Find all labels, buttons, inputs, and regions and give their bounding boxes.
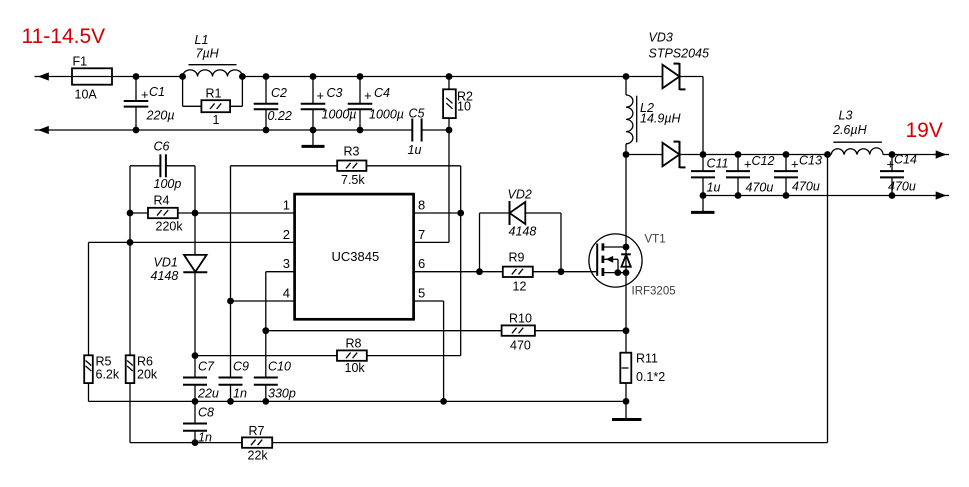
svg-text:+: +	[364, 88, 372, 103]
svg-text:C11: C11	[707, 157, 729, 171]
svg-text:VT1: VT1	[645, 234, 666, 246]
wire feedback row	[130, 442, 828, 444]
junction C9 bottom	[227, 398, 234, 405]
junction L2 top	[623, 73, 630, 80]
junction pin2	[127, 239, 134, 246]
svg-text:R11: R11	[636, 352, 658, 366]
svg-text:L1: L1	[195, 33, 209, 47]
svg-text:C10: C10	[268, 360, 291, 374]
svg-text:1000µ: 1000µ	[369, 108, 404, 122]
junction C13 bottom	[783, 192, 790, 199]
svg-text:0.22: 0.22	[268, 109, 292, 123]
junction switch node	[623, 151, 630, 158]
capacitor C5	[408, 107, 450, 158]
resistor R6	[126, 355, 158, 443]
svg-text:STPS2045: STPS2045	[649, 47, 710, 61]
svg-text:7.5k: 7.5k	[341, 173, 365, 187]
wire bottom input rail	[49, 129, 413, 131]
svg-text:470: 470	[510, 339, 531, 353]
wire VD1 to C7	[194, 272, 196, 377]
svg-text:14.9µH: 14.9µH	[640, 112, 682, 126]
junction C12 bottom	[735, 192, 742, 199]
wire pin3	[266, 272, 295, 378]
svg-text:4148: 4148	[151, 269, 179, 283]
wire pin6 gate row	[414, 271, 598, 273]
svg-text:R3: R3	[344, 145, 360, 159]
svg-text:+: +	[887, 157, 895, 172]
svg-text:C9: C9	[233, 360, 249, 374]
output arrow top	[934, 150, 949, 158]
junction R4 left	[127, 210, 134, 217]
diode VD3 lower	[626, 141, 703, 168]
capacitor C1	[124, 77, 175, 131]
capacitor C6	[130, 140, 195, 192]
node +11-14.5V input label	[22, 25, 106, 48]
svg-text:100p: 100p	[154, 177, 182, 191]
svg-text:VD1: VD1	[154, 256, 178, 270]
svg-text:R10: R10	[509, 312, 532, 326]
ground at C11	[691, 196, 715, 213]
svg-text:220k: 220k	[156, 220, 184, 234]
capacitor C10	[254, 360, 296, 402]
svg-text:C6: C6	[154, 140, 170, 154]
svg-text:20k: 20k	[137, 368, 158, 382]
svg-text:470u: 470u	[746, 181, 774, 195]
wire Vcc to pin7	[414, 130, 449, 242]
ground at R11	[612, 401, 642, 419]
capacitor C9	[219, 360, 250, 402]
wire drain	[625, 155, 627, 248]
svg-text:2: 2	[283, 227, 290, 242]
resistor R2	[443, 77, 473, 131]
svg-text:L3: L3	[839, 109, 853, 123]
wire top input rail	[49, 76, 183, 78]
svg-text:1u: 1u	[408, 143, 422, 157]
svg-text:330p: 330p	[268, 387, 296, 401]
inductor L3	[831, 109, 883, 155]
junction C10 bottom	[262, 398, 269, 405]
diode VD1	[151, 255, 208, 283]
junction C3 top	[310, 73, 317, 80]
junction C4 top	[357, 73, 364, 80]
svg-text:5: 5	[418, 286, 425, 301]
svg-text:10k: 10k	[345, 361, 366, 375]
capacitor C3	[301, 77, 357, 131]
svg-text:IRF3205: IRF3205	[632, 286, 676, 298]
svg-text:C4: C4	[374, 86, 390, 100]
svg-text:12: 12	[513, 280, 527, 294]
junction C3 bottom	[310, 127, 317, 134]
svg-text:22k: 22k	[248, 449, 269, 463]
junction C11 top	[700, 151, 707, 158]
input arrow bottom	[35, 126, 50, 134]
svg-text:+: +	[744, 157, 752, 172]
resistor R3	[231, 145, 461, 188]
svg-text:R6: R6	[137, 355, 153, 369]
resistor R4	[130, 194, 195, 234]
svg-text:C5: C5	[409, 107, 425, 121]
svg-text:R4: R4	[154, 194, 170, 208]
svg-text:R5: R5	[96, 355, 112, 369]
svg-text:C1: C1	[149, 85, 165, 99]
capacitor C14	[880, 153, 917, 196]
junction C1 bottom	[133, 127, 140, 134]
svg-text:C2: C2	[271, 86, 287, 100]
junction R10 right	[623, 327, 630, 334]
svg-text:4: 4	[283, 286, 290, 301]
junction pin8 Vref	[457, 210, 464, 217]
junction C14 top	[889, 151, 896, 158]
capacitor C7	[183, 360, 219, 424]
svg-text:11-14.5V: 11-14.5V	[22, 25, 106, 48]
inductor L1	[183, 33, 243, 77]
junction R11 bottom	[623, 398, 630, 405]
junction C12 top	[735, 151, 742, 158]
wire RT/CT vertical	[230, 166, 232, 378]
junction C7 bottom	[192, 398, 199, 405]
resistor R7	[242, 424, 272, 463]
svg-text:4148: 4148	[509, 225, 537, 239]
junction R9 right	[558, 268, 565, 275]
svg-text:R1: R1	[206, 87, 222, 101]
svg-text:22u: 22u	[197, 387, 219, 401]
junction C4 bottom	[357, 127, 364, 134]
junction Vcc node	[446, 127, 453, 134]
svg-text:470u: 470u	[888, 180, 916, 194]
junction C2 bottom	[263, 127, 270, 134]
diode VD3 upper	[626, 31, 709, 91]
wire pin1	[195, 212, 295, 214]
svg-text:2.6µH: 2.6µH	[832, 123, 868, 137]
wire comp node vertical	[194, 166, 196, 255]
resistor R10	[266, 312, 626, 353]
junction pin5 gnd	[440, 398, 447, 405]
svg-text:C3: C3	[327, 86, 343, 100]
wire pin2	[89, 241, 295, 243]
svg-text:1n: 1n	[233, 387, 247, 401]
svg-text:C14: C14	[894, 153, 917, 167]
wire Vref vertical	[460, 166, 462, 356]
svg-text:7µH: 7µH	[196, 47, 220, 61]
junction C13 top	[783, 151, 790, 158]
ground at C3	[302, 130, 325, 146]
svg-text:R9: R9	[509, 251, 525, 265]
wire source down	[625, 247, 627, 353]
svg-text:10: 10	[457, 100, 471, 114]
output arrow bottom	[934, 191, 949, 199]
svg-text:470u: 470u	[792, 180, 820, 194]
svg-text:UC3845: UC3845	[332, 249, 380, 264]
svg-text:R8: R8	[346, 337, 362, 351]
junction L1 left	[179, 73, 186, 80]
wire left column FB node	[129, 166, 131, 355]
capacitor C8	[183, 406, 214, 445]
wire feedback vertical	[827, 155, 829, 443]
wire top rail mid	[242, 76, 626, 78]
svg-text:R7: R7	[249, 424, 265, 438]
junction C14 bottom	[889, 192, 896, 199]
svg-text:7: 7	[418, 227, 425, 242]
wire output after L3	[883, 154, 935, 156]
svg-text:F1: F1	[73, 55, 88, 69]
junction C8 bottom	[192, 439, 199, 446]
wire output top rail	[703, 154, 831, 156]
junction R10 left	[262, 327, 269, 334]
wire pin8	[414, 212, 461, 214]
svg-text:1: 1	[283, 198, 290, 213]
capacitor C2	[254, 77, 292, 131]
svg-text:6.2k: 6.2k	[96, 368, 120, 382]
svg-text:+: +	[791, 157, 799, 172]
capacitor C4	[348, 77, 404, 131]
inductor L2	[626, 77, 682, 155]
junction R9 left	[476, 268, 483, 275]
svg-text:0.1*2: 0.1*2	[636, 370, 665, 384]
wire pin5	[414, 301, 444, 401]
svg-text:VD2: VD2	[508, 188, 532, 202]
junction R8 left C7	[192, 352, 199, 359]
resistor R9	[503, 251, 533, 294]
resistor R1	[183, 77, 243, 128]
svg-text:1u: 1u	[707, 181, 721, 195]
svg-text:C12: C12	[752, 154, 775, 168]
resistor R11	[620, 352, 665, 402]
svg-text:220µ: 220µ	[146, 109, 175, 123]
svg-text:+: +	[141, 87, 149, 102]
svg-text:6: 6	[418, 256, 425, 271]
wire pin4	[231, 300, 295, 302]
junction VT1 source b	[623, 269, 630, 276]
svg-text:+: +	[317, 88, 325, 103]
svg-text:10A: 10A	[75, 88, 98, 102]
junction C2 top	[263, 73, 270, 80]
svg-text:C8: C8	[198, 406, 214, 420]
svg-text:C7: C7	[198, 360, 215, 374]
resistor R8	[195, 337, 461, 376]
transistor VT1 IRF3205	[589, 234, 676, 298]
node 19V output label	[906, 119, 943, 142]
capacitor C13	[774, 154, 822, 196]
wire output bottom rail	[703, 195, 935, 197]
capacitor C12	[726, 154, 774, 196]
wire ground row	[89, 400, 627, 402]
junction L1 right	[239, 73, 246, 80]
junction VT1 source a	[614, 269, 621, 276]
resistor R5	[84, 242, 120, 401]
junction C11 bottom	[700, 192, 707, 199]
IC U1 UC3845	[295, 194, 414, 319]
junction VT1 drain	[623, 244, 630, 251]
capacitor C11	[691, 155, 729, 196]
junction R2 top	[446, 73, 453, 80]
wire VD3 output corner	[702, 77, 704, 155]
junction feedback tap	[824, 151, 831, 158]
svg-text:3: 3	[283, 256, 290, 271]
junction R4 right pin1	[192, 210, 199, 217]
input arrow top	[35, 72, 50, 80]
svg-text:VD3: VD3	[649, 31, 673, 45]
junction pin4	[227, 298, 234, 305]
svg-text:C13: C13	[799, 154, 822, 168]
svg-text:1: 1	[213, 113, 220, 127]
svg-text:8: 8	[418, 198, 425, 213]
junction C1 top	[133, 73, 140, 80]
svg-text:19V: 19V	[906, 119, 943, 142]
diode VD2	[480, 188, 562, 272]
fuse F1	[72, 55, 112, 102]
